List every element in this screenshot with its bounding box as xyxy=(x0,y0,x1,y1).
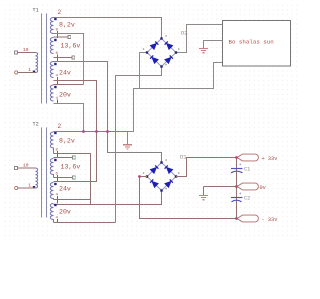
T1 secondary winding 8,2v xyxy=(50,18,53,34)
wire T2 primary top xyxy=(18,167,36,169)
wire T2 tap1 run xyxy=(54,154,91,205)
wire T2 winding4 end run xyxy=(54,222,116,224)
T1 secondary winding 13,6v xyxy=(50,38,53,54)
svg-text:Bo shalas sun: Bo shalas sun xyxy=(229,39,274,46)
junction dot T2 net x96.5 xyxy=(95,130,98,133)
svg-text:- 33v: - 33v xyxy=(262,217,278,223)
connector 0v xyxy=(237,183,258,190)
wire T1 winding4 start stub xyxy=(54,84,84,86)
T1 winding2 polarity dot xyxy=(54,39,56,41)
T1 tap2 junction tick xyxy=(57,55,59,62)
wire T1 tap1 run xyxy=(54,34,84,85)
wire T1 winding2 end stub xyxy=(54,57,73,59)
T2 winding2 polarity dot xyxy=(54,159,56,161)
T2 tap3 junction tick xyxy=(57,196,59,204)
svg-text:20v: 20v xyxy=(59,209,71,216)
T1 primary polarity dot xyxy=(33,71,35,73)
svg-text:8,2v: 8,2v xyxy=(59,22,75,29)
box Bo shalas sun xyxy=(223,21,291,67)
T1 secondary winding 24v xyxy=(50,62,53,78)
wire bridge D2 right to box xyxy=(176,25,222,53)
svg-text:8,2v: 8,2v xyxy=(59,138,75,145)
T1 no-connect square tap2 xyxy=(72,56,75,59)
svg-text:24v: 24v xyxy=(59,70,71,77)
junction dot plus rail xyxy=(235,156,238,159)
svg-text:24v: 24v xyxy=(59,186,71,193)
diode D1 LL xyxy=(150,179,158,187)
junction dot minus rail xyxy=(235,217,238,220)
wire bridge D1 left to minus rail xyxy=(140,177,237,219)
T2 tap1 junction tick xyxy=(57,151,59,158)
T1 primary coil xyxy=(36,53,38,73)
T2 tap2 junction tick xyxy=(57,175,59,182)
wire T2 winding4 start to bridge D1 bottom xyxy=(54,191,162,205)
diode D1 UL xyxy=(151,165,159,173)
svg-text:13,6v: 13,6v xyxy=(61,43,81,50)
wire T2 winding2 end stub xyxy=(54,177,73,179)
ground on 0v rail xyxy=(203,187,205,196)
connector +33v xyxy=(237,154,258,161)
T2 no-connect square tap2 xyxy=(73,176,76,179)
T1 winding1 polarity dot xyxy=(54,18,56,20)
T1 primary terminal circle pin 1 xyxy=(15,71,18,74)
wire box bottom to T2 pin2 net xyxy=(128,63,223,132)
wire 0v rail xyxy=(204,186,237,188)
wire T2 pin2 net magenta xyxy=(54,131,128,133)
bridge D2 terminal marks xyxy=(143,35,180,65)
T1 tap3 junction tick xyxy=(57,77,59,84)
transformer T2 core xyxy=(42,128,47,218)
svg-text:+: + xyxy=(239,163,242,168)
wire bridge D1 right to plus rail xyxy=(176,158,237,177)
T2 secondary winding 13,6v xyxy=(50,159,53,178)
bridge rectifier D1 xyxy=(147,163,176,191)
svg-text:T2: T2 xyxy=(33,122,39,128)
connector -33v xyxy=(237,215,258,222)
wire box to ground xyxy=(204,41,223,49)
junction dot bridge D1 left xyxy=(138,175,141,178)
svg-text:+: + xyxy=(239,192,242,197)
T1 tap1 junction tick xyxy=(57,31,59,38)
diode D2 UL xyxy=(151,41,159,49)
wire T1 winding2 start stub xyxy=(54,36,69,38)
T2 primary coil xyxy=(36,168,38,188)
diode D1 UR xyxy=(165,165,173,173)
T2 secondary winding 24v xyxy=(50,183,53,200)
svg-text:T1: T1 xyxy=(33,8,39,14)
T2 bottom tap tick xyxy=(57,219,59,223)
wire T2 winding2 start stub xyxy=(54,157,73,159)
bridge rectifier D2 xyxy=(147,39,176,67)
junction dot 0v rail xyxy=(235,185,238,188)
T2 primary terminal circle pin 1 xyxy=(15,186,18,189)
bridge D1 terminal marks xyxy=(143,159,180,189)
wire T2 primary bottom xyxy=(18,187,36,189)
svg-text:0v: 0v xyxy=(260,185,266,191)
diode D2 LL xyxy=(150,55,158,63)
bridge D2 vertex dots xyxy=(146,37,177,67)
T1 secondary winding 20v xyxy=(50,85,53,101)
junction dot T2 net x83.5 xyxy=(82,130,85,133)
capacitor C2 xyxy=(231,192,243,202)
junction dot T2 net x107.5 xyxy=(106,130,109,133)
svg-text:20v: 20v xyxy=(59,92,71,99)
wire T1 pin2 to bridge D2 top xyxy=(54,18,162,39)
svg-text:2: 2 xyxy=(58,9,62,16)
wire T1 primary bottom xyxy=(18,72,36,74)
diode D1 LR xyxy=(165,179,173,187)
svg-text:D2: D2 xyxy=(181,30,188,37)
svg-text:2: 2 xyxy=(58,123,62,130)
svg-text:C2: C2 xyxy=(244,196,250,202)
wire T1 tap3 run xyxy=(54,81,97,182)
T1 bottom tap tick xyxy=(57,100,59,104)
wire T1 tap2 run to bridge D1 top xyxy=(54,62,162,162)
T2 secondary winding 8,2v xyxy=(50,132,53,154)
diode D2 LR xyxy=(165,55,173,63)
T1 winding3 polarity dot xyxy=(54,63,56,65)
T2 secondary winding 20v xyxy=(50,204,53,223)
T1 primary terminal square pin 10 xyxy=(15,51,18,54)
T1 no-connect square tap1 xyxy=(68,36,71,39)
T2 winding4 polarity dot xyxy=(54,204,56,206)
bridge D1 vertex dots xyxy=(146,161,177,191)
wire capacitor rail xyxy=(236,158,238,219)
T1 winding4 polarity dot xyxy=(54,86,56,88)
capacitor C1 xyxy=(231,163,243,173)
T2 no-connect square tap1 xyxy=(73,156,76,159)
T2 winding3 polarity dot xyxy=(54,183,56,185)
T2 winding1 polarity dot xyxy=(54,132,56,134)
T2 primary terminal square pin 10 xyxy=(15,167,18,170)
ground on T2 pin2 net xyxy=(127,132,129,145)
svg-text:C1: C1 xyxy=(244,167,250,173)
wire bridge D2 bottom to T2 20v net xyxy=(116,67,162,223)
T2 primary polarity dot xyxy=(33,186,35,188)
ground near box xyxy=(199,48,208,52)
diode D2 UR xyxy=(165,41,173,49)
svg-text:13,6v: 13,6v xyxy=(61,164,81,171)
wire T1 primary top xyxy=(18,52,36,54)
wire T2 winding4 start stub jog to bridge D1 bottom xyxy=(54,199,91,201)
wire T1 winding4 end run xyxy=(54,104,84,132)
svg-text:+ 33v: + 33v xyxy=(262,156,278,162)
transformer T1 core xyxy=(42,14,47,104)
wire bridge D2 left down to box net xyxy=(140,53,148,89)
